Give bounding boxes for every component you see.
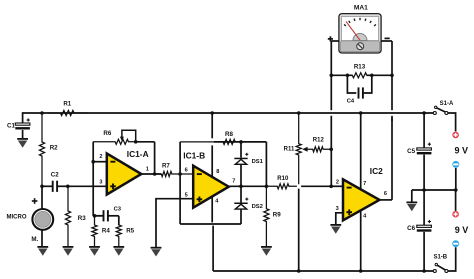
svg-text:IC1-B: IC1-B — [183, 150, 205, 160]
wire pin4 drop — [211, 196, 214, 271]
node R12 right — [329, 148, 333, 152]
microphone MICRO — [7, 198, 54, 243]
op-amp IC1-A — [107, 149, 149, 194]
pin 7 label IC2 — [363, 181, 366, 187]
capacitor C5 — [407, 143, 431, 155]
wire mid rail — [412, 190, 456, 202]
svg-text:R11: R11 — [284, 146, 295, 152]
ground R4 — [89, 246, 100, 256]
svg-text:2: 2 — [99, 154, 102, 160]
meter plus terminal — [328, 36, 333, 41]
svg-text:IC1-A: IC1-A — [127, 149, 149, 159]
switch S1-A — [433, 101, 454, 114]
resistor R4 — [92, 216, 110, 247]
wire IC2 pin4 — [360, 211, 362, 271]
node pin2 IC2 — [329, 185, 333, 189]
diode DS1 — [234, 153, 263, 165]
svg-text:R4: R4 — [102, 228, 110, 235]
svg-text:C3: C3 — [114, 207, 122, 213]
battery B1 minus — [452, 161, 459, 168]
pin 2 label IC1-A — [99, 154, 102, 160]
node bot-R11 — [297, 269, 301, 273]
resistor R11 trimmer — [284, 113, 302, 184]
svg-text:R10: R10 — [277, 176, 289, 182]
meter minus terminal — [385, 37, 390, 39]
wire C4 loop — [347, 75, 371, 93]
capacitor C6 — [407, 220, 431, 232]
wire IC1-B out — [229, 185, 267, 187]
wire pin8 stub — [211, 113, 213, 177]
wire IC2 pin2 stub — [331, 185, 343, 187]
node R6 out — [134, 140, 138, 144]
wire DS1 stems — [240, 142, 242, 186]
resistor R10 — [266, 176, 297, 189]
wire mic stem — [41, 186, 43, 246]
svg-text:R13: R13 — [354, 63, 366, 70]
pin 3 label IC1-A — [99, 179, 102, 185]
node rect out — [265, 185, 269, 189]
ground MICRO — [37, 246, 48, 256]
resistor R1 — [48, 100, 88, 115]
node bot-pin4 — [359, 269, 363, 273]
node rail-pin8 — [210, 111, 214, 115]
svg-text:R1: R1 — [63, 100, 71, 107]
wire pin2 riser — [92, 142, 94, 216]
wire DS2 stems — [240, 186, 242, 224]
svg-text:6: 6 — [384, 191, 387, 197]
wire C5 stems — [423, 113, 425, 190]
wire S1A right — [448, 113, 456, 131]
pin 8 label — [216, 169, 219, 175]
svg-text:R2: R2 — [50, 145, 58, 152]
wire pin3 line — [68, 185, 107, 187]
resistor R2 — [39, 113, 58, 186]
ground pin5 — [151, 247, 162, 257]
svg-text:4: 4 — [363, 214, 367, 220]
svg-text:R5: R5 — [126, 228, 134, 235]
resistor R6 trimmer — [93, 130, 136, 145]
ground R5 — [113, 246, 124, 256]
wire meter minus column — [391, 41, 393, 121]
node pin2 — [91, 160, 95, 164]
node R13 left inner — [346, 74, 350, 78]
node C2-R3 — [66, 185, 70, 189]
capacitor C2 — [42, 171, 68, 191]
wire C6 stems — [423, 190, 425, 271]
ground IC2 pin3 — [330, 224, 341, 234]
svg-text:R12: R12 — [313, 138, 325, 144]
wire B1 minus — [455, 168, 457, 190]
pin 4 label — [215, 198, 219, 204]
node IC1-A out — [153, 172, 157, 176]
svg-text:C4: C4 — [347, 99, 355, 105]
op-amp IC2 — [343, 166, 383, 220]
resistor R5 — [116, 224, 134, 247]
node pin6 — [178, 172, 182, 176]
wire R13 row — [331, 74, 392, 76]
wire pin2 stub — [93, 161, 107, 163]
node rail-pin7 — [359, 111, 363, 115]
svg-text:R6: R6 — [103, 130, 111, 137]
node R13 right outer — [390, 74, 394, 78]
node rail-R11 — [297, 111, 301, 115]
wire IC1-A out — [141, 173, 161, 175]
battery B2 plus — [452, 211, 459, 218]
svg-text:7: 7 — [232, 179, 235, 185]
svg-text:9 V: 9 V — [455, 145, 469, 155]
wire R6 to output — [136, 142, 155, 174]
pin 3 label IC2 — [336, 206, 339, 212]
resistor R13 — [347, 63, 371, 77]
pin 2 label IC2 — [336, 180, 339, 186]
wire B2 minus — [448, 247, 456, 271]
node C3-R4 — [93, 214, 97, 218]
ground R9 — [261, 246, 272, 256]
wire DS2 return — [180, 174, 241, 224]
capacitor C3 — [95, 207, 122, 222]
wire C3 left — [93, 215, 101, 217]
node mid-B1 — [454, 188, 458, 192]
resistor R3 — [65, 186, 86, 246]
ground R3 — [63, 246, 74, 256]
svg-text:3: 3 — [336, 206, 339, 212]
wire R10 to pin2 — [301, 185, 331, 187]
svg-text:R8: R8 — [225, 131, 233, 138]
ground C1 — [17, 138, 28, 148]
node rail-C5 — [422, 111, 426, 115]
meter MA1 — [339, 5, 381, 53]
op-amp IC1-B — [183, 150, 228, 207]
pin 6 label — [185, 167, 188, 173]
ground mid rail — [406, 202, 417, 212]
wire pin5 stub — [156, 199, 193, 247]
resistor R12 wiper — [302, 138, 331, 152]
pin 7 label — [232, 179, 235, 185]
svg-text:C2: C2 — [51, 171, 59, 178]
svg-text:8: 8 — [216, 169, 219, 175]
battery B1 plus — [452, 132, 459, 139]
svg-text:5: 5 — [185, 193, 188, 199]
resistor R9 — [264, 186, 281, 246]
battery B2 label — [455, 225, 469, 235]
svg-text:6: 6 — [185, 167, 188, 173]
wire IC2 pin7 — [360, 113, 362, 189]
svg-text:DS2: DS2 — [252, 204, 263, 210]
pin 6 label IC2 — [384, 191, 387, 197]
wire meter plus column — [330, 41, 332, 186]
svg-text:R9: R9 — [273, 211, 281, 218]
svg-text:7: 7 — [363, 181, 366, 187]
svg-text:1: 1 — [146, 166, 149, 172]
diode DS2 — [234, 198, 263, 211]
svg-text:MA1: MA1 — [354, 5, 368, 12]
capacitor C4 — [347, 87, 363, 104]
svg-text:3: 3 — [99, 179, 102, 185]
wire +V top rail — [23, 112, 434, 114]
svg-text:C1: C1 — [7, 122, 15, 129]
node mid-C6 — [422, 188, 426, 192]
wire C3-R5 — [118, 216, 120, 225]
node IC1-B out — [239, 185, 243, 189]
svg-text:2: 2 — [336, 180, 339, 186]
switch S1-B — [433, 255, 448, 273]
wire IC2 out — [380, 118, 393, 200]
wire DS1 top to R9 — [241, 142, 266, 186]
svg-text:DS1: DS1 — [252, 159, 264, 165]
svg-text:C5: C5 — [407, 148, 415, 155]
svg-text:4: 4 — [215, 198, 219, 204]
svg-text:MICRO: MICRO — [7, 215, 27, 221]
node bot-C6 — [422, 269, 426, 273]
capacitor C1 — [7, 118, 30, 129]
pin 1 label IC1-A — [146, 166, 149, 172]
node rail-R2 — [40, 111, 44, 115]
node C2-R2-mic — [40, 185, 44, 189]
wire pin6 riser — [179, 142, 181, 174]
wire meter stubs — [331, 40, 392, 42]
wire C1 stem — [22, 112, 24, 138]
pin 5 label — [185, 193, 188, 199]
svg-text:C6: C6 — [407, 225, 415, 232]
resistor R8 — [180, 131, 235, 145]
resistor R7 — [155, 162, 194, 176]
svg-text:S1-A: S1-A — [440, 101, 454, 107]
wire B2 plus — [455, 190, 457, 211]
wire R11 lower — [298, 189, 300, 271]
battery B1 label — [455, 145, 469, 155]
svg-text:R3: R3 — [78, 215, 86, 222]
wire R8 gap right — [214, 141, 241, 143]
wire R6 wiper — [120, 130, 136, 142]
svg-text:9 V: 9 V — [455, 225, 469, 235]
battery B2 minus — [452, 240, 459, 247]
svg-text:S1-B: S1-B — [433, 255, 447, 261]
node DS1 top — [239, 140, 243, 144]
svg-text:IC2: IC2 — [370, 166, 383, 176]
pin 4 label IC2 — [363, 214, 367, 220]
svg-text:R7: R7 — [162, 162, 170, 169]
svg-text:M.: M. — [31, 236, 38, 243]
node R13 left outer — [330, 74, 334, 78]
node R13 right inner — [370, 74, 374, 78]
wire IC2 pin3 — [336, 213, 343, 224]
wire -V bottom rail — [213, 270, 433, 272]
